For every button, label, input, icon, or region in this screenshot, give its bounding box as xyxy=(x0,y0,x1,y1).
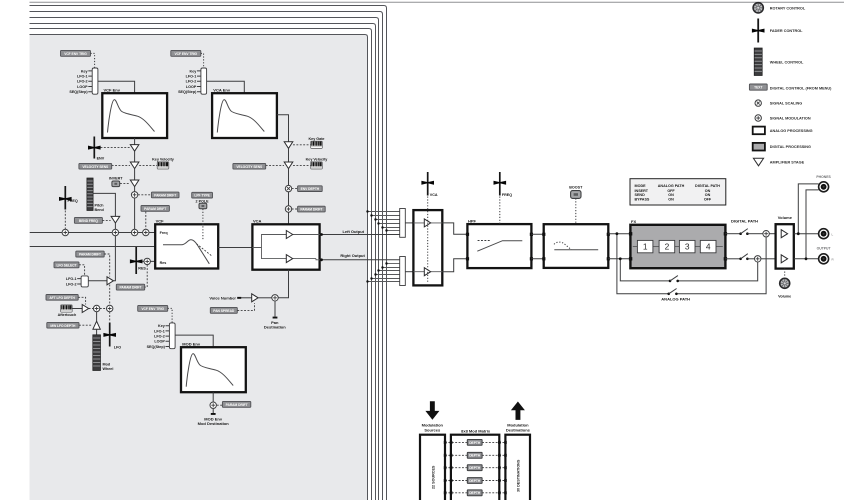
wire dashed xyxy=(292,208,298,210)
wire dashed res drift xyxy=(145,265,148,287)
wire dotted lpf type xyxy=(202,209,204,240)
amplifier vol L xyxy=(781,230,787,238)
svg-text:LFO-1: LFO-1 xyxy=(154,329,165,333)
HPF nubs xyxy=(466,233,469,236)
svg-text:ENV: ENV xyxy=(97,156,105,160)
legend digital processing xyxy=(753,143,811,151)
svg-text:ENV DEPTH: ENV DEPTH xyxy=(301,187,320,191)
svg-text:VELOCITY SENS: VELOCITY SENS xyxy=(82,165,109,169)
svg-text:SEND: SEND xyxy=(635,193,646,197)
wire selector to VCA Env xyxy=(207,81,245,93)
LPF type button xyxy=(199,203,207,209)
Key Gate keyboard xyxy=(309,137,325,149)
svg-text:OFF: OFF xyxy=(667,189,675,193)
LPF TYPE label xyxy=(192,192,213,203)
legend signal scaling xyxy=(755,100,802,106)
wire dashed drift to plus xyxy=(145,212,147,230)
PARAM DRIFT label xyxy=(151,192,179,198)
wire FX out R xyxy=(725,258,740,260)
wire aftertouch to amp xyxy=(72,308,82,310)
OUTPUT R jack xyxy=(817,246,835,263)
wire dotted trig xyxy=(168,308,172,323)
svg-text:Res: Res xyxy=(160,261,167,265)
svg-text:Freq: Freq xyxy=(160,231,168,235)
wire dashed between plus xyxy=(100,308,107,310)
wire dashed ENV fader to amp xyxy=(101,147,131,149)
wire lfo up to freq plus xyxy=(113,236,115,281)
legend amplifier stage xyxy=(753,158,804,166)
HPF box xyxy=(467,219,531,269)
VELOCITY SENS label xyxy=(79,163,112,169)
AFT LFO DEPTH label xyxy=(46,295,78,301)
svg-text:4: 4 xyxy=(706,242,711,252)
MW LFO DEPTH label xyxy=(47,322,79,328)
svg-text:MW LFO DEPTH: MW LFO DEPTH xyxy=(50,324,76,328)
svg-text:Key Velocity: Key Velocity xyxy=(306,158,329,162)
wire dashed xyxy=(292,188,298,190)
svg-text:Destination: Destination xyxy=(264,325,286,330)
voice tap junctions xyxy=(366,262,387,282)
LFO fader xyxy=(103,323,121,350)
BEND FREQ label xyxy=(74,217,102,223)
Right Output wire xyxy=(320,259,400,261)
amplifier L xyxy=(286,231,292,239)
wire VCF to VCA xyxy=(218,247,252,249)
MOD env trigger selector xyxy=(147,323,176,349)
VCF Env box xyxy=(102,87,167,138)
svg-text:Mod: Mod xyxy=(103,362,111,366)
svg-text:VCA: VCA xyxy=(253,219,262,224)
svg-text:Bend: Bend xyxy=(95,208,105,212)
mod matrix depth row xyxy=(444,478,507,484)
svg-text:ON: ON xyxy=(668,198,674,202)
VCA ENV TRIG label xyxy=(171,50,201,56)
svg-text:SEQ(Step): SEQ(Step) xyxy=(69,90,88,94)
svg-text:VCA: VCA xyxy=(430,193,438,197)
VCA env trigger selector xyxy=(178,68,207,94)
PHONES jack xyxy=(816,175,831,192)
wire dashed invert to amp xyxy=(120,182,130,184)
FX box xyxy=(630,219,725,268)
left summing box xyxy=(400,209,406,238)
bass boost EQ box xyxy=(544,224,609,268)
svg-text:FREQ: FREQ xyxy=(502,193,512,197)
switch digital R xyxy=(739,254,748,260)
svg-text:DIGITAL PATH: DIGITAL PATH xyxy=(731,219,758,224)
wire voice number xyxy=(240,297,252,299)
VCA Env box xyxy=(212,87,277,138)
svg-text:DEPTH: DEPTH xyxy=(469,491,481,495)
HPF FREQ fader xyxy=(494,172,513,197)
amplifier aftertouch xyxy=(82,305,88,313)
switch analog R xyxy=(669,276,679,283)
mod matrix depth row xyxy=(444,465,507,471)
svg-text:22 SOURCES: 22 SOURCES xyxy=(432,465,436,489)
svg-text:PARAM DRIFT: PARAM DRIFT xyxy=(300,208,322,212)
amplifier invert xyxy=(130,180,139,187)
svg-text:ANALOG PATH: ANALOG PATH xyxy=(658,184,685,188)
sources box xyxy=(420,435,445,500)
svg-text:Key Gate: Key Gate xyxy=(309,137,325,141)
mod matrix depth row xyxy=(444,440,507,446)
svg-text:DEPTH: DEPTH xyxy=(469,441,481,445)
wire selector to VCF Env xyxy=(98,81,135,93)
LFO selector xyxy=(66,276,88,287)
svg-text:3: 3 xyxy=(685,242,690,252)
wire FX out L xyxy=(725,233,740,235)
signal scaling env depth xyxy=(285,185,291,191)
wire dashed xyxy=(293,164,311,166)
signal modulation bend xyxy=(112,229,118,235)
voice taps left sum xyxy=(368,212,400,231)
wire mod destination xyxy=(212,409,214,413)
signal modulation mod env drift xyxy=(210,402,216,408)
svg-text:TEXT: TEXT xyxy=(754,86,762,90)
svg-text:FREQ: FREQ xyxy=(68,199,78,203)
analog bypass loop R xyxy=(620,259,757,281)
mod destinations title xyxy=(506,423,531,433)
amplifier mod wheel xyxy=(93,321,100,329)
svg-text:LOOP: LOOP xyxy=(186,85,197,89)
svg-text:LFO-2: LFO-2 xyxy=(66,282,77,286)
svg-text:Key: Key xyxy=(190,69,198,73)
svg-text:VCF ENV TRIG: VCF ENV TRIG xyxy=(174,52,197,56)
VCA box xyxy=(252,219,319,270)
svg-text:LFO-1: LFO-1 xyxy=(77,75,88,79)
svg-text:PARAM DRIFT: PARAM DRIFT xyxy=(154,194,176,198)
wire dashed amp to keyboard xyxy=(139,164,157,166)
svg-text:PARAM DRIFT: PARAM DRIFT xyxy=(144,207,166,211)
wire xyxy=(769,233,775,235)
svg-text:OFF: OFF xyxy=(704,198,712,202)
wire pitch bend to bend amp xyxy=(93,193,115,216)
amplifier env amount xyxy=(130,145,139,152)
analog bypass loop L xyxy=(617,234,766,294)
phones tap wires xyxy=(798,184,818,259)
signal modulation param drift xyxy=(131,192,137,198)
PARAM DRIFT label freq xyxy=(141,205,169,211)
svg-text:PHONES: PHONES xyxy=(816,175,831,179)
wire xyxy=(747,258,754,260)
signal modulation env xyxy=(131,229,137,235)
destinations box xyxy=(505,435,530,500)
Volume knob xyxy=(778,278,791,299)
switch digital L xyxy=(739,229,748,235)
ENV DEPTH label xyxy=(298,186,323,192)
MOD Env box xyxy=(181,342,246,393)
svg-text:VELOCITY SENS: VELOCITY SENS xyxy=(236,165,263,169)
svg-text:LFO-2: LFO-2 xyxy=(77,80,88,84)
wire selector to MOD Env xyxy=(175,335,213,347)
wire dashed aft xyxy=(78,297,85,304)
wire dashed mw xyxy=(79,324,92,326)
svg-text:Key: Key xyxy=(158,324,166,328)
signal modulation pan xyxy=(272,295,278,301)
svg-text:SIGNAL SCALING: SIGNAL SCALING xyxy=(770,102,802,106)
VELOCITY SENS label 2 xyxy=(233,163,266,169)
amplifier R xyxy=(286,255,292,263)
svg-text:VCF ENV TRIG: VCF ENV TRIG xyxy=(141,307,164,311)
wire dashed xyxy=(293,144,311,146)
svg-text:RES: RES xyxy=(138,267,146,271)
wire dashed pan spread xyxy=(237,303,254,310)
voice taps right sum xyxy=(368,264,400,282)
wire plus to amp xyxy=(96,312,98,322)
svg-text:FADER CONTROL: FADER CONTROL xyxy=(770,29,803,33)
PARAM DRIFT label xyxy=(298,206,326,212)
svg-text:LFO-1: LFO-1 xyxy=(186,75,197,79)
svg-text:SIGNAL MODULATION: SIGNAL MODULATION xyxy=(770,117,811,121)
svg-text:Key: Key xyxy=(81,69,89,73)
wire xyxy=(288,192,290,206)
wire selector to lfo amp xyxy=(88,280,107,282)
svg-text:PARAM DRIFT: PARAM DRIFT xyxy=(79,253,101,257)
wire amp to wheel xyxy=(96,329,98,335)
svg-text:LOOP: LOOP xyxy=(77,85,88,89)
wire dashed lfo fader up xyxy=(109,285,111,322)
svg-text:Sources: Sources xyxy=(424,427,441,432)
svg-text:LPF TYPE: LPF TYPE xyxy=(194,194,210,198)
Aftertouch keyboard xyxy=(58,305,77,317)
OUTPUT L jack xyxy=(819,229,834,239)
wire pan destination xyxy=(274,301,276,317)
signal modulation freq cutoff xyxy=(62,229,68,235)
amplifier velocity xyxy=(130,162,139,169)
wire xyxy=(288,148,290,162)
svg-text:Right Output: Right Output xyxy=(340,253,365,258)
PARAM DRIFT label res xyxy=(116,284,144,290)
svg-text:ON: ON xyxy=(668,193,674,197)
wire jog L xyxy=(442,223,466,234)
Volume amp box xyxy=(776,215,794,269)
svg-text:PARAM DRIFT: PARAM DRIFT xyxy=(119,286,141,290)
svg-text:30 DESTINATIONS: 30 DESTINATIONS xyxy=(517,459,521,492)
legend signal modulation xyxy=(755,115,811,121)
wire xyxy=(747,233,763,235)
voice tap junctions xyxy=(366,210,387,231)
svg-text:SEQ(Step): SEQ(Step) xyxy=(178,90,197,94)
svg-text:LFO-2: LFO-2 xyxy=(154,335,165,339)
svg-text:BOOST: BOOST xyxy=(569,186,583,190)
stereo VCA box xyxy=(413,210,442,285)
signal modulation param drift xyxy=(285,206,291,212)
svg-text:OUTPUT: OUTPUT xyxy=(817,246,832,250)
PARAM DRIFT label lfo xyxy=(76,251,104,257)
svg-text:Wheel: Wheel xyxy=(103,367,114,371)
legend fader control xyxy=(752,19,803,43)
svg-text:Left Output: Left Output xyxy=(342,229,364,234)
svg-text:LFO-2: LFO-2 xyxy=(186,80,197,84)
wire dashed label to amp xyxy=(112,164,130,166)
svg-text:Voice Number: Voice Number xyxy=(209,295,236,300)
amplifier out R xyxy=(424,268,430,276)
wire xyxy=(761,258,776,260)
VCA master fader xyxy=(421,172,438,197)
svg-text:LFO SELECT: LFO SELECT xyxy=(56,263,76,267)
svg-text:AFT LFO DEPTH: AFT LFO DEPTH xyxy=(49,296,75,300)
wire dashed xyxy=(217,404,223,406)
amplifier lfo depth xyxy=(107,277,113,285)
legend analog processing xyxy=(753,127,813,135)
svg-text:PARAM DRIFT: PARAM DRIFT xyxy=(226,403,248,407)
output wires xyxy=(794,234,819,259)
wire EQ to FX xyxy=(608,234,630,259)
svg-text:MODE: MODE xyxy=(635,184,647,188)
FREQ fader xyxy=(59,186,78,210)
wire HPF to EQ xyxy=(531,234,543,258)
amplifier key velocity xyxy=(284,162,293,169)
Mod Wheel xyxy=(93,335,114,371)
Left Output wire xyxy=(320,234,400,236)
voice stack frame lines xyxy=(30,1,844,3)
legend digital control xyxy=(749,84,832,91)
switch analog L xyxy=(667,289,677,296)
amplifier out L xyxy=(424,219,430,227)
voice panel background xyxy=(30,35,368,500)
svg-text:LFO-1: LFO-1 xyxy=(66,277,77,281)
svg-text:SEQ(Step): SEQ(Step) xyxy=(147,345,166,349)
pan destination stub xyxy=(273,317,278,319)
svg-text:Volume: Volume xyxy=(778,215,793,220)
wire xyxy=(134,169,136,180)
svg-text:Volume: Volume xyxy=(778,295,791,299)
matrix box xyxy=(451,435,499,500)
amplifier pan spread xyxy=(252,294,258,302)
amplifier vol R xyxy=(781,255,787,263)
signal modulation sum R xyxy=(755,256,761,262)
mod sources arrow xyxy=(425,401,439,419)
signal modulation res xyxy=(144,258,150,264)
wire sum L to VCA xyxy=(405,222,413,224)
Key Velocity keyboard 2 xyxy=(306,158,329,169)
svg-text:FX: FX xyxy=(631,219,636,224)
svg-text:VCF Env: VCF Env xyxy=(104,87,121,92)
wire xyxy=(288,169,290,186)
FX mode table xyxy=(630,179,726,205)
main freq wire xyxy=(30,232,156,234)
svg-text:LFO: LFO xyxy=(114,345,122,349)
svg-text:VCF ENV TRIG: VCF ENV TRIG xyxy=(64,52,87,56)
VCA env chain wire xyxy=(277,115,289,142)
LFO SELECT label xyxy=(54,262,79,268)
Key Velocity keyboard xyxy=(152,158,175,169)
wire mod env down xyxy=(212,392,214,402)
svg-text:ON: ON xyxy=(705,189,711,193)
svg-text:ROTARY CONTROL: ROTARY CONTROL xyxy=(770,6,806,10)
wire dotted trig to selector xyxy=(91,53,95,68)
svg-text:VCA Env: VCA Env xyxy=(213,87,231,92)
svg-text:1: 1 xyxy=(643,242,648,252)
svg-text:HPF: HPF xyxy=(468,219,477,224)
legend rotary control xyxy=(752,2,806,14)
signal modulation drift xyxy=(143,229,149,235)
wire VCA pan control xyxy=(278,270,288,298)
wire xyxy=(134,151,136,162)
wire dashed fader to freq wire xyxy=(64,211,66,230)
svg-text:DIGITAL PROCESSING: DIGITAL PROCESSING xyxy=(770,145,811,149)
svg-text:WHEEL CONTROL: WHEEL CONTROL xyxy=(770,60,804,64)
svg-text:Aftertouch: Aftertouch xyxy=(58,313,77,317)
wire dashed xyxy=(266,164,284,166)
wire dashed lfo drift xyxy=(104,254,110,277)
svg-text:Key Velocity: Key Velocity xyxy=(152,158,175,162)
mod sources title xyxy=(422,423,444,433)
svg-text:DEPTH: DEPTH xyxy=(469,454,481,458)
res wire xyxy=(30,246,156,248)
BOOST button xyxy=(569,186,583,199)
PARAM DRIFT label mod env xyxy=(222,401,250,407)
svg-text:AMPLIFIER STAGE: AMPLIFIER STAGE xyxy=(770,160,805,164)
wire res plus to box xyxy=(143,260,156,262)
svg-text:INVERT: INVERT xyxy=(109,176,123,180)
VCF filter box xyxy=(155,219,218,269)
mod matrix depth row xyxy=(444,490,507,496)
amplifier bend freq xyxy=(111,216,120,223)
wire sum R to VCA xyxy=(405,271,413,273)
wire dashed amp to plus xyxy=(89,308,94,310)
wire to VCA box xyxy=(288,212,290,224)
amplifier key gate xyxy=(284,142,293,149)
legend wheel control xyxy=(754,48,804,76)
wire dotted freq fader xyxy=(499,197,501,225)
svg-text:BEND FREQ: BEND FREQ xyxy=(79,219,99,223)
svg-text:DEPTH: DEPTH xyxy=(469,479,481,483)
svg-text:DIGITAL CONTROL (FROM MENU): DIGITAL CONTROL (FROM MENU) xyxy=(770,87,832,91)
svg-text:Destinations: Destinations xyxy=(506,427,531,432)
wire xyxy=(134,187,136,192)
svg-text:Pitch: Pitch xyxy=(95,204,105,208)
wire dashed xyxy=(138,194,151,196)
wire dotted trig to selector xyxy=(201,53,204,68)
svg-text:ANALOG PATH: ANALOG PATH xyxy=(661,297,690,302)
wire dotted vca fader xyxy=(427,197,429,284)
mod destinations arrow xyxy=(511,402,525,420)
Pitch Bend wheel xyxy=(87,178,105,212)
FX nubs xyxy=(629,232,632,235)
svg-text:ON: ON xyxy=(705,193,711,197)
svg-text:MOD Env: MOD Env xyxy=(182,342,201,347)
wire amp to plus xyxy=(258,297,272,299)
wire VCF Env down xyxy=(134,138,136,145)
wire dotted volume xyxy=(784,269,786,277)
svg-text:DIGITAL PATH: DIGITAL PATH xyxy=(695,184,720,188)
right summing box xyxy=(400,257,406,286)
svg-text:8x8 Mod Matrix: 8x8 Mod Matrix xyxy=(461,428,491,433)
mod matrix depth row xyxy=(444,452,507,458)
signal modulation mw aft xyxy=(93,305,99,311)
wire env chain to freq wire xyxy=(134,198,136,229)
svg-text:ANALOG PROCESSING: ANALOG PROCESSING xyxy=(770,129,813,133)
svg-text:LOOP: LOOP xyxy=(154,340,165,344)
wire dashed lfo select xyxy=(79,265,85,276)
MOD ENV TRIG label xyxy=(138,305,168,311)
VCF ENV TRIG label xyxy=(61,50,91,56)
svg-text:Mod Destination: Mod Destination xyxy=(198,421,230,426)
VCF env trigger selector xyxy=(69,68,98,94)
INVERT button xyxy=(109,176,123,186)
EQ nubs xyxy=(542,233,545,236)
PAN SPREAD label xyxy=(210,307,237,313)
wire dotted boost xyxy=(575,198,577,224)
svg-text:2: 2 xyxy=(665,242,670,252)
svg-text:DEPTH: DEPTH xyxy=(469,466,481,470)
svg-text:PAN SPREAD: PAN SPREAD xyxy=(213,309,235,313)
RES fader xyxy=(130,247,147,274)
svg-text:BYPASS: BYPASS xyxy=(635,198,650,202)
wire xyxy=(114,223,116,229)
svg-text:VCF: VCF xyxy=(156,219,165,224)
svg-text:INSERT: INSERT xyxy=(635,189,649,193)
